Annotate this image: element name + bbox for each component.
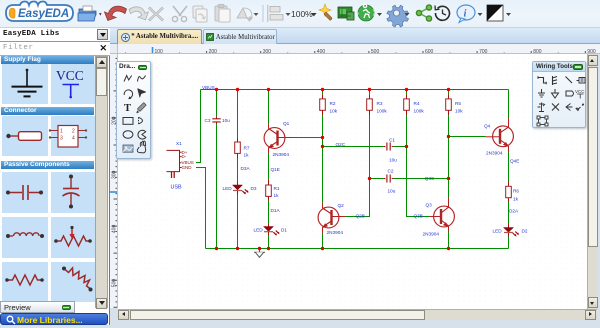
svg-text:R5: R5 — [455, 101, 461, 106]
svg-text:Q1E: Q1E — [271, 167, 280, 172]
capacitor C1 — [384, 143, 394, 151]
wire Q4 base — [449, 136, 486, 138]
svg-text:R1: R1 — [274, 186, 280, 191]
wire Q4 emitter to R6 to D2 — [508, 152, 510, 249]
left library panel — [0, 28, 110, 325]
svg-text:2N3904: 2N3904 — [486, 151, 503, 156]
wire Q1 collector — [268, 90, 270, 124]
resistor R7 — [235, 138, 241, 159]
wire Q1 base to R2 net — [292, 137, 323, 139]
LED D3 — [233, 182, 249, 195]
wire R7-D3 branch — [237, 90, 239, 249]
LED D2 — [504, 224, 520, 237]
cap polar v — [69, 175, 73, 179]
wire R4 branch down to Q3 base — [407, 90, 430, 217]
EasyEDA logo — [6, 2, 73, 22]
connector 4pin — [58, 126, 78, 148]
svg-text:10u: 10u — [388, 189, 396, 194]
svg-text:10k: 10k — [455, 109, 463, 114]
svg-text:2N3904: 2N3904 — [423, 232, 440, 237]
svg-text:R4: R4 — [414, 101, 420, 106]
svg-text:R6: R6 — [513, 189, 519, 194]
wire Q3 emitter — [448, 232, 450, 249]
resistor R1 — [266, 180, 272, 201]
svg-text:1: 1 — [60, 129, 63, 135]
canvas — [118, 54, 587, 309]
svg-text:LED: LED — [254, 228, 264, 233]
net label Q2C — [336, 142, 346, 147]
wire Q4 collector — [508, 90, 510, 118]
cells — [2, 64, 48, 104]
svg-text:D2A: D2A — [509, 209, 519, 214]
svg-text:1k: 1k — [244, 153, 250, 158]
junction node C2-R5 Q3C — [447, 177, 450, 180]
share — [416, 5, 431, 21]
svg-text:VCC: VCC — [56, 68, 84, 83]
svg-text:2N3904: 2N3904 — [327, 230, 344, 235]
svg-text:D1: D1 — [281, 228, 287, 233]
junction node Q1 base — [321, 136, 324, 139]
svg-text:VCC: VCC — [575, 89, 585, 94]
svg-text:USB: USB — [171, 185, 182, 191]
net flag VBUS — [202, 85, 215, 90]
svg-text:Q2C: Q2C — [336, 142, 346, 147]
wire C3 branch — [216, 90, 218, 249]
svg-text:Q4: Q4 — [484, 124, 491, 129]
wire GND from X1 — [196, 168, 206, 249]
wire VBUS drop to X1 — [196, 90, 201, 163]
paste — [215, 5, 230, 23]
LED D1 — [264, 223, 280, 236]
svg-text:D3: D3 — [251, 186, 257, 191]
svg-text:2N3904: 2N3904 — [273, 152, 290, 157]
potentiometer — [54, 239, 58, 243]
h ruler — [110, 44, 600, 54]
panel scrollbar — [95, 56, 108, 308]
svg-text:10u: 10u — [389, 158, 397, 163]
panel symbols — [0, 28, 110, 325]
label LED D1 — [254, 228, 288, 233]
svg-text:2: 2 — [72, 129, 75, 135]
resistor R4 — [404, 94, 410, 116]
gear — [387, 5, 409, 27]
svg-text:D-: D- — [182, 154, 187, 159]
svg-text:10u: 10u — [222, 118, 230, 123]
history — [435, 6, 449, 21]
libs dropdown row — [0, 28, 110, 42]
rotate icon — [237, 8, 252, 21]
junction node C2-R3 — [368, 177, 371, 180]
resistor R5 — [446, 94, 452, 116]
green run circle — [358, 4, 374, 21]
svg-text:D2: D2 — [522, 229, 528, 234]
svg-text:T: T — [124, 103, 131, 114]
main area — [110, 28, 600, 328]
svg-text:1k: 1k — [513, 197, 519, 202]
wire VBUS top rail — [201, 89, 509, 91]
align icon — [267, 5, 283, 22]
pcb green icon — [338, 7, 354, 20]
vertical scrollbar — [587, 54, 597, 309]
wire ground bottom rail — [206, 248, 509, 250]
wire Q3 collector — [448, 179, 450, 199]
net label Q2B — [356, 214, 365, 219]
v ruler — [110, 54, 118, 308]
label USB — [171, 185, 182, 191]
svg-text:C3: C3 — [205, 118, 211, 123]
wiring tools palette — [532, 61, 586, 128]
svg-text:Q2: Q2 — [338, 203, 345, 208]
scissors — [172, 6, 187, 22]
svg-text:10k: 10k — [330, 109, 338, 114]
bw theme square — [487, 5, 503, 21]
capacitor C3 — [212, 116, 220, 124]
label C2 value — [388, 169, 396, 194]
label X1 — [176, 141, 182, 146]
net label D1A — [271, 208, 281, 213]
transistor Q3 (2N3904) — [429, 198, 454, 232]
label LED D2 — [493, 229, 528, 234]
drawing tools palette — [116, 61, 151, 159]
wire R5 branch — [448, 90, 450, 179]
net label D2A — [509, 209, 519, 214]
svg-text:100%: 100% — [291, 9, 313, 19]
svg-text:Q3C: Q3C — [425, 176, 435, 181]
transistor Q1 (2N3904, mirrored) — [264, 123, 292, 153]
inductor — [6, 234, 10, 238]
wire R2 branch and Q2 collector — [322, 90, 324, 249]
junction node C1-R4 — [405, 145, 408, 148]
resistor R2 — [320, 94, 326, 116]
connector X1 USB — [167, 150, 182, 178]
pin names X1 — [182, 150, 194, 170]
more libraries button — [0, 313, 108, 326]
junction dots top rail — [215, 88, 450, 91]
svg-text:100k: 100k — [414, 109, 425, 114]
svg-text:1k: 1k — [274, 193, 280, 198]
svg-text:Q3: Q3 — [426, 203, 433, 208]
svg-text:C1: C1 — [389, 138, 395, 143]
connector plug — [6, 134, 10, 138]
label R4 value — [414, 101, 425, 114]
label Q3 — [423, 203, 440, 237]
undo red — [105, 6, 127, 20]
svg-text:VBUS: VBUS — [202, 85, 215, 90]
label R6 value — [513, 189, 519, 202]
label R2 value — [330, 101, 338, 114]
ground symbol — [254, 249, 265, 258]
label R5 value — [455, 101, 463, 114]
svg-text:Q2B: Q2B — [356, 214, 365, 219]
transistor Q2 (2N3904, mirrored) — [318, 203, 345, 234]
filter row — [0, 42, 110, 56]
junction node Q2C — [321, 145, 324, 148]
svg-text:i: i — [464, 9, 467, 20]
svg-text:Q3B: Q3B — [414, 214, 423, 219]
label Q1 — [273, 121, 290, 157]
label R1 value — [274, 186, 280, 198]
svg-text:Q4E: Q4E — [510, 159, 519, 164]
svg-text:X1: X1 — [176, 141, 182, 146]
label R7 value — [244, 146, 250, 158]
net label Q3B — [414, 214, 423, 219]
svg-text:100k: 100k — [377, 109, 388, 114]
wire Q1 emitter to R1 to D1 — [268, 153, 270, 249]
redo gray — [129, 7, 148, 20]
net label Q3C — [425, 176, 435, 181]
resistor diag — [62, 267, 66, 271]
svg-text:GND: GND — [182, 165, 193, 170]
capacitor C2 — [384, 175, 394, 183]
cap h — [6, 191, 10, 195]
svg-text:R7: R7 — [244, 146, 250, 151]
info bubble — [457, 5, 475, 23]
net label Q1E — [271, 167, 280, 172]
resistor R6 — [506, 182, 512, 203]
svg-text:LED: LED — [223, 186, 233, 191]
svg-text:R3: R3 — [377, 101, 383, 106]
svg-text:3: 3 — [60, 136, 63, 142]
wire net Q2C horizontal — [323, 146, 407, 148]
label R3 value — [377, 101, 388, 114]
svg-text:C2: C2 — [388, 169, 394, 174]
copy — [193, 6, 207, 22]
horizontal scrollbar — [118, 309, 597, 320]
svg-text:D1A: D1A — [271, 208, 281, 213]
label Q2 — [327, 203, 345, 235]
magic wand — [319, 4, 332, 20]
top toolbar — [0, 0, 600, 28]
svg-text:4: 4 — [72, 136, 75, 142]
wire R3 branch down to Q2 base — [345, 90, 370, 217]
net label Q4E — [510, 159, 519, 164]
wire net Q3C with C2 — [370, 178, 449, 180]
svg-text:R2: R2 — [330, 101, 336, 106]
svg-text:Q1: Q1 — [283, 121, 290, 126]
label C3 value — [205, 118, 231, 123]
svg-text:EasyEDA: EasyEDA — [18, 8, 69, 20]
section headers — [1, 56, 94, 64]
resistor R3 — [367, 94, 373, 116]
label C1 value — [389, 138, 397, 163]
resistor h — [5, 278, 9, 282]
label Q4 — [484, 124, 503, 156]
X delete — [149, 7, 164, 21]
junction dots bottom rail — [215, 247, 450, 250]
preview bar — [0, 301, 75, 313]
corner — [110, 44, 118, 54]
label LED D3 — [223, 186, 257, 191]
svg-text:LED: LED — [493, 229, 503, 234]
net label D3A — [241, 166, 251, 171]
separator — [263, 5, 264, 22]
tab bar — [110, 28, 600, 44]
junction node R5-Q4 base — [447, 135, 450, 138]
transistor Q4 (2N3904) — [486, 118, 514, 152]
folder icon — [78, 6, 102, 21]
svg-text:D3A: D3A — [241, 166, 251, 171]
